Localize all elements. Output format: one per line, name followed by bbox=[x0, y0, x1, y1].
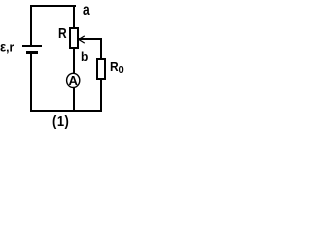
caption (1) bbox=[52, 114, 69, 128]
label R bbox=[58, 26, 67, 40]
label R0 bbox=[110, 60, 124, 75]
node a label bbox=[83, 2, 90, 18]
wire: left branch upper (battery top lead) bbox=[30, 5, 32, 45]
wire: wiper horizontal lead bbox=[79, 38, 102, 40]
wire: right branch upper (wiper to R0) bbox=[100, 38, 102, 58]
label ε,r bbox=[0, 40, 14, 54]
resistor R0 body bbox=[96, 58, 106, 80]
wire: bottom rail bbox=[30, 110, 102, 112]
wire: left branch lower (battery bottom lead) bbox=[30, 54, 32, 112]
wire: middle branch top (to node a) bbox=[73, 5, 75, 27]
wire: middle branch between R and ammeter bbox=[73, 48, 75, 74]
wire: top rail bbox=[30, 5, 76, 7]
wire: right branch lower (R0 to bottom rail) bbox=[100, 79, 102, 111]
rheostat wiper arrow bbox=[0, 0, 133, 130]
resistor R (rheostat body) bbox=[69, 27, 79, 49]
wire: middle branch below ammeter bbox=[73, 87, 75, 111]
ammeter A bbox=[0, 0, 133, 130]
svg-text:A: A bbox=[69, 73, 79, 88]
battery cell E,r short plate bbox=[26, 51, 38, 54]
node b label bbox=[81, 50, 88, 63]
battery cell E,r long plate bbox=[22, 45, 42, 47]
